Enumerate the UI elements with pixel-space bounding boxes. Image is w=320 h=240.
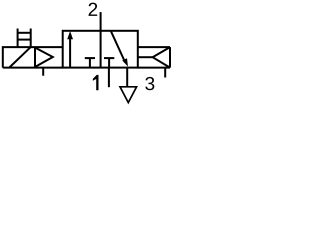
port 2 stub — [100, 12, 102, 31]
solenoid ladder left rail — [17, 29, 19, 48]
solenoid ladder rung 1 — [18, 32, 31, 34]
right position diagonal shaft — [111, 31, 125, 62]
spring diagonal up — [153, 47, 170, 57]
right position T stem — [108, 58, 110, 68]
solenoid actuator box — [3, 47, 63, 68]
spring box right — [169, 47, 171, 68]
solenoid ladder right rail — [30, 29, 32, 48]
solenoid box divider — [34, 47, 36, 68]
spring box bottom — [138, 67, 170, 69]
valve body — [63, 31, 138, 68]
left position T bar — [85, 57, 95, 59]
right position T bar — [104, 57, 114, 59]
wire actuator bottom — [3, 67, 63, 69]
port 3 stub — [126, 68, 128, 87]
left arrow head — [67, 31, 73, 39]
pilot stub right — [164, 68, 166, 78]
pneumatic valve schematic: 3/2-way solenoid pilot valve with spring return — [0, 0, 173, 107]
pilot triangle — [36, 48, 53, 67]
valve body divider — [100, 31, 102, 68]
spring mid stub — [138, 56, 153, 58]
label port 1 — [93, 75, 99, 90]
left position arrow shaft — [69, 37, 71, 68]
spring box top — [138, 46, 170, 48]
right arrow head — [122, 58, 128, 66]
label port 2 — [89, 3, 98, 16]
left position T stem — [89, 58, 91, 68]
electrical stub — [42, 68, 44, 76]
exhaust triangle port 3 — [120, 87, 137, 103]
port 1 stub — [108, 68, 110, 88]
label port 3 — [145, 77, 154, 90]
spring diagonal down — [153, 57, 170, 67]
solenoid ladder rung 2 — [18, 39, 31, 41]
solenoid diagonal — [10, 47, 31, 67]
